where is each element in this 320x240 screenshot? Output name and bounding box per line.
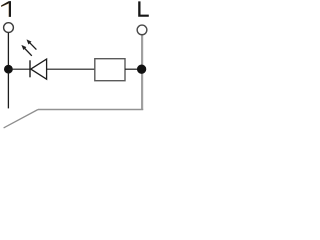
wire resistor to right junction <box>125 68 141 70</box>
LED cathode bar <box>29 60 31 77</box>
wire junction to switch contact <box>7 72 9 108</box>
terminal circle node L <box>137 25 147 35</box>
return wire right vertical (gray) <box>141 69 143 110</box>
return wire bottom horizontal (gray) <box>38 109 143 111</box>
LED triangle <box>31 59 47 79</box>
switch lever (gray) <box>4 110 38 128</box>
LED light arrow lower <box>22 45 32 56</box>
junction dot right <box>137 65 146 74</box>
node 1 label <box>1 1 11 17</box>
LED light arrow upper <box>27 40 37 50</box>
wire LED to resistor <box>47 68 95 70</box>
junction dot left <box>4 65 13 74</box>
node L label <box>138 1 149 16</box>
terminal circle node 1 <box>4 23 14 33</box>
resistor R1 body <box>95 59 125 81</box>
wire from terminal 1 to junction <box>7 33 9 66</box>
wire terminal L to right junction (gray) <box>141 35 143 69</box>
wire junction to LED <box>8 68 30 70</box>
